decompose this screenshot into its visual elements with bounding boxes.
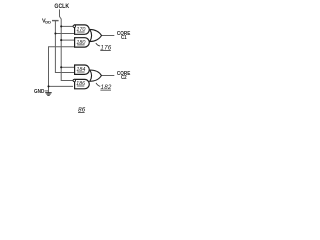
svg-text:GND: GND — [34, 89, 45, 96]
svg-text:C2: C2 — [121, 75, 127, 81]
svg-text:GCLK: GCLK — [54, 4, 70, 10]
svg-text:DD: DD — [45, 20, 51, 25]
svg-text:C1: C1 — [121, 35, 127, 41]
